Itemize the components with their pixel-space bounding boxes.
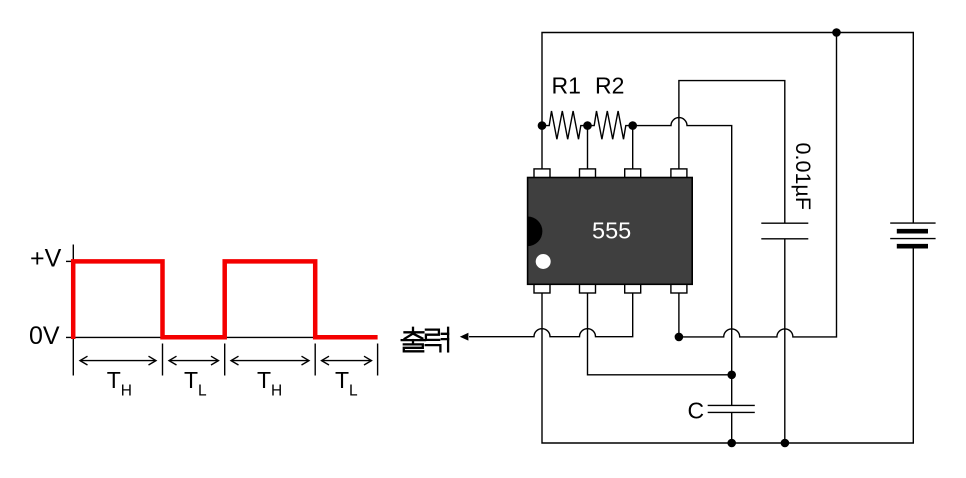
svg-text:L: L	[349, 382, 358, 399]
svg-text:H: H	[271, 382, 282, 399]
svg-text:C: C	[688, 398, 705, 424]
svg-text:L: L	[198, 382, 207, 399]
svg-text:+V: +V	[30, 245, 62, 273]
svg-text:0V: 0V	[29, 322, 60, 350]
svg-text:0.01µF: 0.01µF	[791, 143, 815, 211]
svg-text:H: H	[121, 382, 132, 399]
svg-text:555: 555	[592, 218, 631, 244]
svg-text:T: T	[257, 367, 271, 393]
svg-text:R1: R1	[552, 73, 581, 99]
svg-text:T: T	[335, 367, 349, 393]
svg-text:T: T	[107, 367, 121, 393]
svg-text:R2: R2	[595, 73, 624, 99]
svg-text:T: T	[184, 367, 198, 393]
